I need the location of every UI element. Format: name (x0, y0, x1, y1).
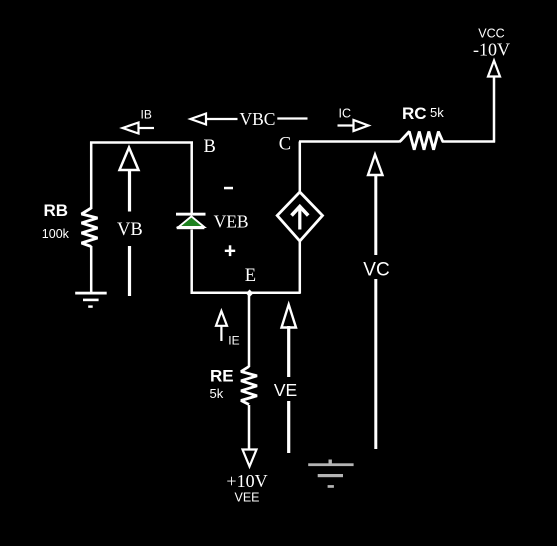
svg-text:RE: RE (210, 366, 234, 385)
svg-text:VE: VE (274, 380, 297, 400)
svg-text:5k: 5k (430, 105, 444, 120)
svg-text:VB: VB (117, 220, 143, 240)
svg-text:IE: IE (228, 334, 239, 348)
svg-text:E: E (245, 266, 256, 286)
svg-text:+10V: +10V (226, 471, 267, 491)
svg-text:100k: 100k (42, 227, 70, 241)
svg-text:B: B (204, 137, 216, 157)
svg-text:IB: IB (141, 108, 152, 122)
svg-text:VBC: VBC (240, 109, 276, 129)
svg-text:C: C (279, 135, 291, 155)
svg-text:5k: 5k (210, 386, 224, 401)
svg-text:IC: IC (339, 107, 352, 121)
svg-text:VEE: VEE (234, 491, 259, 505)
svg-text:RC: RC (402, 104, 427, 123)
svg-text:VC: VC (363, 260, 389, 281)
svg-text:VEB: VEB (214, 211, 249, 231)
svg-text:RB: RB (44, 201, 69, 220)
svg-text:-10V: -10V (473, 39, 510, 59)
